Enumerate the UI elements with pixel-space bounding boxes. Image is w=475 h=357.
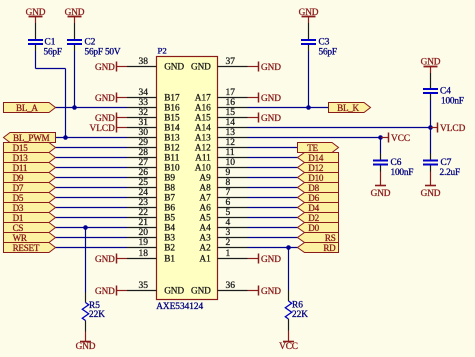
port BL_PWM xyxy=(4,133,56,143)
svg-text:GND: GND xyxy=(95,114,115,124)
svg-text:A7: A7 xyxy=(199,194,211,204)
svg-text:33: 33 xyxy=(139,98,149,108)
power port VLCD (right) xyxy=(437,123,439,133)
power port VCC (right of pin 13) xyxy=(388,133,390,143)
wire C1 bottom to BL_PWM net xyxy=(35,51,37,69)
ground at pin 32 (left) xyxy=(116,113,118,123)
svg-text:GND: GND xyxy=(191,63,211,73)
svg-text:8: 8 xyxy=(226,178,231,188)
svg-text:A15: A15 xyxy=(195,114,211,124)
svg-text:30: 30 xyxy=(139,128,149,138)
svg-text:22: 22 xyxy=(139,208,149,218)
svg-text:27: 27 xyxy=(139,158,149,168)
pin 3 (A3 right) xyxy=(218,237,248,239)
port TE xyxy=(298,143,339,153)
pin 7 (A7 right) xyxy=(218,197,248,199)
svg-text:GND: GND xyxy=(371,189,391,199)
capacitor C2 xyxy=(74,33,76,39)
svg-text:VCC: VCC xyxy=(279,342,298,352)
wire RD down to R6 xyxy=(288,248,290,291)
svg-text:A16: A16 xyxy=(195,104,211,114)
wire CS down to R5 xyxy=(85,228,87,293)
svg-text:B4: B4 xyxy=(164,224,175,234)
svg-text:12: 12 xyxy=(226,138,236,148)
wire D10 from IC xyxy=(248,177,298,179)
svg-text:GND: GND xyxy=(95,94,115,104)
pin 28 (B11 left) xyxy=(127,157,157,159)
capacitor C4 xyxy=(430,82,432,88)
svg-text:GND: GND xyxy=(95,63,115,73)
power port VCC (bottom) xyxy=(283,341,294,343)
svg-text:GND: GND xyxy=(261,114,281,124)
svg-text:A13: A13 xyxy=(195,134,211,144)
svg-text:VCC: VCC xyxy=(391,134,410,144)
svg-text:A9: A9 xyxy=(199,174,211,184)
capacitor C6 xyxy=(380,154,382,160)
wire RD from pin 2 xyxy=(248,247,298,249)
wire C4 top lead xyxy=(430,67,432,74)
svg-text:14: 14 xyxy=(226,118,236,128)
node VCC junction xyxy=(378,135,383,140)
node junction BL_PWM/C1 xyxy=(63,135,68,140)
pin 12 (A12 right) xyxy=(218,147,248,149)
svg-text:GND: GND xyxy=(95,255,115,265)
wire BL_A to pin 33 xyxy=(56,107,128,109)
wire D8 from IC xyxy=(248,187,298,189)
capacitor C1 xyxy=(35,33,37,39)
svg-text:32: 32 xyxy=(139,108,149,118)
svg-text:B14: B14 xyxy=(164,124,180,134)
svg-text:25: 25 xyxy=(139,178,149,188)
svg-text:GND: GND xyxy=(261,287,281,297)
ground at pin 1 (right) xyxy=(258,254,260,264)
svg-text:A17: A17 xyxy=(195,94,211,104)
port D7 xyxy=(4,183,56,193)
svg-text:TE: TE xyxy=(307,143,318,153)
port D5 xyxy=(4,193,56,203)
svg-text:D12: D12 xyxy=(308,163,324,173)
pin 5 (A5 right) xyxy=(218,217,248,219)
pin 22 (B5 left) xyxy=(127,217,157,219)
port D15 xyxy=(4,143,56,153)
svg-text:2.2uF: 2.2uF xyxy=(440,168,460,178)
wire D11 to IC xyxy=(56,167,128,169)
svg-text:WR: WR xyxy=(13,233,28,243)
port D1 xyxy=(4,213,56,223)
svg-text:D0: D0 xyxy=(308,223,319,233)
port D0 xyxy=(298,223,339,233)
svg-text:GND: GND xyxy=(191,287,211,297)
port D10 xyxy=(298,173,339,183)
wire D5 to IC xyxy=(56,197,128,199)
svg-text:10: 10 xyxy=(226,158,236,168)
pin 34 (B17 left) xyxy=(127,97,157,99)
pin 4 (A4 right) xyxy=(218,227,248,229)
svg-text:56pF: 56pF xyxy=(44,48,62,58)
svg-text:GND: GND xyxy=(261,63,281,73)
svg-text:GND: GND xyxy=(95,287,115,297)
svg-text:A12: A12 xyxy=(195,144,211,154)
pin 26 (B9 left) xyxy=(127,177,157,179)
ground below R5 xyxy=(80,341,91,343)
svg-text:22K: 22K xyxy=(89,310,105,320)
pin 29 (B12 left) xyxy=(127,147,157,149)
svg-text:D2: D2 xyxy=(308,213,319,223)
power port VLCD at pin 31 (left) xyxy=(116,123,118,133)
port CS xyxy=(4,223,56,233)
pin 2 (A2 right) xyxy=(218,247,248,249)
wire TE from pin 12 xyxy=(248,147,298,149)
svg-text:RD: RD xyxy=(323,243,336,253)
svg-text:24: 24 xyxy=(139,188,149,198)
svg-text:B10: B10 xyxy=(164,164,180,174)
ground at pin 36 (right) xyxy=(258,286,260,296)
wire C2 bottom to BL_A net xyxy=(74,51,76,108)
svg-text:D8: D8 xyxy=(308,183,319,193)
pin 32 (B15 left) xyxy=(127,117,157,119)
svg-text:56pF: 56pF xyxy=(319,48,337,58)
svg-text:A8: A8 xyxy=(199,184,211,194)
svg-text:B15: B15 xyxy=(164,114,180,124)
svg-text:11: 11 xyxy=(226,148,235,158)
svg-text:18: 18 xyxy=(139,249,149,259)
wire C3 bottom to BL_K net xyxy=(308,51,310,108)
port D13 xyxy=(4,153,56,163)
svg-text:D5: D5 xyxy=(13,193,24,203)
svg-text:RS: RS xyxy=(325,233,336,243)
ground at pin 38 (left) xyxy=(116,62,118,72)
pin 31 (B14 left) xyxy=(127,127,157,129)
svg-text:B5: B5 xyxy=(164,214,175,224)
svg-text:4: 4 xyxy=(226,218,231,228)
wire BL_PWM to pin 30 xyxy=(56,137,128,139)
svg-text:1: 1 xyxy=(226,249,231,259)
svg-text:B13: B13 xyxy=(164,134,180,144)
wire D14 from IC xyxy=(248,157,298,159)
svg-text:A14: A14 xyxy=(195,124,211,134)
svg-text:100nF: 100nF xyxy=(441,97,464,107)
ground at pin 34 (left) xyxy=(116,93,118,103)
pin 24 (B7 left) xyxy=(127,197,157,199)
svg-text:C2: C2 xyxy=(85,38,96,48)
svg-text:C4: C4 xyxy=(440,87,451,97)
svg-text:20: 20 xyxy=(139,228,149,238)
wire RS from pin 3 xyxy=(248,237,298,239)
svg-text:9: 9 xyxy=(226,168,231,178)
svg-text:D10: D10 xyxy=(308,173,324,183)
wire D0 from IC xyxy=(248,227,298,229)
svg-text:7: 7 xyxy=(226,188,231,198)
svg-text:B8: B8 xyxy=(164,184,175,194)
svg-text:A2: A2 xyxy=(199,244,211,254)
svg-text:RESET: RESET xyxy=(13,243,40,253)
svg-text:GND: GND xyxy=(261,255,281,265)
svg-text:C6: C6 xyxy=(391,158,402,168)
connector P2 body xyxy=(157,57,218,300)
port D3 xyxy=(4,203,56,213)
svg-text:D4: D4 xyxy=(308,203,319,213)
pin 14 (A14 right) xyxy=(218,127,248,129)
capacitor C7 xyxy=(430,154,432,160)
svg-text:100nF: 100nF xyxy=(391,168,414,178)
pin 23 (B6 left) xyxy=(127,207,157,209)
ground at pin 15 (right) xyxy=(258,113,260,123)
port RD xyxy=(298,243,339,253)
svg-text:36: 36 xyxy=(226,281,236,291)
svg-text:BL_A: BL_A xyxy=(16,103,38,113)
svg-text:B2: B2 xyxy=(164,244,175,254)
wire RESET to IC xyxy=(56,247,128,249)
wire D2 from IC xyxy=(248,217,298,219)
port BL_A xyxy=(4,103,56,113)
pin 21 (B4 left) xyxy=(127,227,157,229)
svg-text:56pF 50V: 56pF 50V xyxy=(85,48,121,58)
port WR xyxy=(4,233,56,243)
svg-text:31: 31 xyxy=(139,118,149,128)
svg-text:23: 23 xyxy=(139,198,149,208)
port D8 xyxy=(298,183,339,193)
ground at pin 37 (right) xyxy=(258,62,260,72)
ground at pin 18 (left) xyxy=(116,254,118,264)
wire D7 to IC xyxy=(56,187,128,189)
ground below C6 xyxy=(375,185,386,187)
pin 30 (B13 left) xyxy=(127,137,157,139)
wire D9 to IC xyxy=(56,177,128,179)
svg-text:A10: A10 xyxy=(195,164,211,174)
pin 17 (A17 right) xyxy=(218,97,248,99)
svg-text:B1: B1 xyxy=(164,255,175,265)
wire VCC junction down to C6 xyxy=(380,138,382,154)
svg-text:5: 5 xyxy=(226,208,231,218)
svg-text:D9: D9 xyxy=(13,173,24,183)
pin 33 (B16 left) xyxy=(127,107,157,109)
svg-text:2: 2 xyxy=(226,238,231,248)
svg-text:6: 6 xyxy=(226,198,231,208)
ground at pin 17 (right) xyxy=(258,93,260,103)
svg-text:A3: A3 xyxy=(199,234,211,244)
port RS xyxy=(298,233,339,243)
svg-text:GND: GND xyxy=(164,287,184,297)
svg-text:13: 13 xyxy=(226,128,236,138)
svg-text:BL_PWM: BL_PWM xyxy=(13,133,50,143)
pin 9 (A9 right) xyxy=(218,177,248,179)
pin 13 (A13 right) xyxy=(218,137,248,139)
pin 19 (B2 left) xyxy=(127,247,157,249)
wire D6 from IC xyxy=(248,197,298,199)
node junction BL_A/C2 xyxy=(72,105,77,110)
pin 18 (B1 left) xyxy=(127,258,157,260)
resistor R5 xyxy=(82,303,88,321)
pin 36 (GND right) xyxy=(218,290,248,292)
port RESET xyxy=(4,243,56,253)
resistor R6 xyxy=(285,301,291,319)
pin 25 (B8 left) xyxy=(127,187,157,189)
svg-text:B3: B3 xyxy=(164,234,175,244)
svg-text:A6: A6 xyxy=(199,204,211,214)
wire WR to IC xyxy=(56,237,128,239)
pin 20 (B3 left) xyxy=(127,237,157,239)
svg-text:19: 19 xyxy=(139,238,149,248)
svg-text:B6: B6 xyxy=(164,204,175,214)
svg-text:GND: GND xyxy=(76,342,96,352)
svg-text:GND: GND xyxy=(261,94,281,104)
svg-text:R6: R6 xyxy=(292,301,303,311)
pin 8 (A8 right) xyxy=(218,187,248,189)
svg-text:A4: A4 xyxy=(199,224,211,234)
pin 15 (A15 right) xyxy=(218,117,248,119)
wire D13 to IC xyxy=(56,157,128,159)
svg-text:37: 37 xyxy=(226,57,236,67)
ground below C7 xyxy=(425,185,436,187)
port D4 xyxy=(298,203,339,213)
wire C2 top lead xyxy=(74,17,76,24)
svg-text:D6: D6 xyxy=(308,193,319,203)
wire D3 to IC xyxy=(56,207,128,209)
wire C3 top lead xyxy=(308,17,310,24)
port D2 xyxy=(298,213,339,223)
wire R5 bottom lead xyxy=(85,321,87,332)
svg-text:28: 28 xyxy=(139,148,149,158)
svg-text:26: 26 xyxy=(139,168,149,178)
svg-text:D13: D13 xyxy=(13,153,29,163)
svg-text:D15: D15 xyxy=(13,143,29,153)
svg-text:35: 35 xyxy=(139,281,149,291)
svg-text:P2: P2 xyxy=(158,46,167,56)
svg-text:B9: B9 xyxy=(164,174,175,184)
svg-text:22K: 22K xyxy=(292,310,308,320)
pin 35 (GND left) xyxy=(127,290,157,292)
wire D4 from IC xyxy=(248,207,298,209)
pin 1 (A1 right) xyxy=(218,258,248,260)
svg-text:38: 38 xyxy=(139,57,149,67)
wire BL_K from pin 16 xyxy=(248,107,329,109)
wire C7 bottom lead xyxy=(430,172,432,186)
wire pin 13 to VCC node xyxy=(248,137,381,139)
svg-text:A5: A5 xyxy=(199,214,211,224)
svg-text:AXE534124: AXE534124 xyxy=(156,302,203,312)
svg-text:B11: B11 xyxy=(164,154,180,164)
svg-text:16: 16 xyxy=(226,98,236,108)
pin 37 (GND right) xyxy=(218,66,248,68)
ground at pin 35 (left) xyxy=(116,286,118,296)
pin 6 (A6 right) xyxy=(218,207,248,209)
svg-text:BL_K: BL_K xyxy=(337,103,359,113)
svg-text:29: 29 xyxy=(139,138,149,148)
node junction CS/R5 xyxy=(83,225,88,230)
svg-text:B16: B16 xyxy=(164,104,180,114)
svg-text:B7: B7 xyxy=(164,194,175,204)
pin 10 (A10 right) xyxy=(218,167,248,169)
node junction BL_K/C3 xyxy=(306,105,311,110)
svg-text:GND: GND xyxy=(421,189,441,199)
svg-text:C1: C1 xyxy=(45,38,56,48)
svg-text:D7: D7 xyxy=(13,183,24,193)
svg-text:A11: A11 xyxy=(195,154,211,164)
svg-text:CS: CS xyxy=(13,223,24,233)
svg-text:GND: GND xyxy=(164,63,184,73)
node junction RD/R6 xyxy=(286,245,291,250)
svg-text:D14: D14 xyxy=(308,153,324,163)
svg-text:17: 17 xyxy=(226,88,236,98)
wire R6 bottom lead xyxy=(288,319,290,331)
port BL_K xyxy=(329,103,371,113)
wire C6 bottom lead xyxy=(380,172,382,186)
node VLCD junction xyxy=(428,125,433,130)
wire pin 14 to VLCD node xyxy=(248,127,431,129)
svg-text:21: 21 xyxy=(139,218,149,228)
port D11 xyxy=(4,163,56,173)
port D12 xyxy=(298,163,339,173)
wire C1 top lead xyxy=(35,17,37,24)
svg-text:C3: C3 xyxy=(319,38,330,48)
pin 38 (GND left) xyxy=(127,66,157,68)
svg-text:D1: D1 xyxy=(13,213,24,223)
wire D15 to IC xyxy=(56,147,128,149)
port D9 xyxy=(4,173,56,183)
pin 27 (B10 left) xyxy=(127,167,157,169)
svg-text:3: 3 xyxy=(226,228,231,238)
capacitor C3 xyxy=(308,33,310,39)
wire D1 to IC xyxy=(56,217,128,219)
svg-text:VLCD: VLCD xyxy=(89,124,115,134)
svg-text:B12: B12 xyxy=(164,144,180,154)
svg-text:15: 15 xyxy=(226,108,236,118)
svg-text:A1: A1 xyxy=(199,255,211,265)
pin 11 (A11 right) xyxy=(218,157,248,159)
pin 16 (A16 right) xyxy=(218,107,248,109)
svg-text:B17: B17 xyxy=(164,94,180,104)
svg-text:34: 34 xyxy=(139,88,149,98)
port D14 xyxy=(298,153,339,163)
wire C4 bottom to C7 top xyxy=(430,100,432,154)
svg-text:C7: C7 xyxy=(441,158,452,168)
wire D12 from IC xyxy=(248,167,298,169)
svg-text:D11: D11 xyxy=(13,163,28,173)
port D6 xyxy=(298,193,339,203)
wire CS to IC xyxy=(56,227,128,229)
svg-text:VLCD: VLCD xyxy=(440,124,466,134)
svg-text:D3: D3 xyxy=(13,203,24,213)
